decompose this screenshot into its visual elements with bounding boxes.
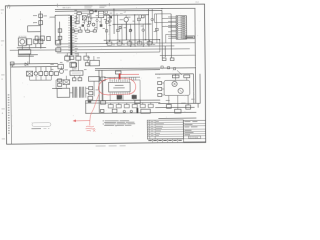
wire vertical x197.8 stub [197,103,199,107]
wire bus top feed [55,14,70,16]
wire vertical x165.5 [164,46,166,57]
transistor Q4 [59,69,63,73]
wire vertical x195.5 [194,8,197,103]
wire cap drops [30,75,52,80]
right mid components T marks [162,58,166,61]
wire br rail y104 [158,102,200,104]
relay K3 [141,109,151,113]
title block outline [183,120,205,142]
extra small parts D2-area [87,11,109,26]
resistor R12 [70,62,76,67]
U1 pin feed wires [110,74,134,101]
resistor R4 [76,21,79,24]
relay K1 box [18,49,30,54]
capacitor C11 [100,24,103,27]
transformer T2 winding B [79,87,83,98]
crystal Y1 [141,15,144,18]
wire rail y52.5 [57,51,160,54]
wire T2 to boxes [86,87,89,89]
wire center rail y70 [95,69,160,72]
wire right rail y74.6 [155,73,193,75]
small labels br [157,77,195,103]
label box K2 [184,75,190,78]
bottom margin text [96,145,106,148]
IC U1 body [109,82,131,92]
resistor R18 [166,104,171,108]
capacitor C19 polarized [136,108,138,113]
connector P1 below bus [69,56,74,59]
svg-text:24-1: 24-1 [195,2,199,4]
resistor R15 [158,82,162,85]
wire vertical x200 [199,74,201,104]
revision table rows [147,122,183,136]
wire vertical x41 [39,11,41,42]
terminal strip TB1 bus bar [70,15,72,55]
resistor R24 [65,56,71,60]
wire long rail y49.5 [10,49,190,51]
capacitor C6 [39,72,43,76]
red line to right [120,73,138,75]
section I wires [66,75,103,101]
wire long rail y43.5 [57,43,195,44]
wire vertical x102 [101,70,103,100]
wire top rail [55,8,195,9]
IC U1 top pins [110,80,130,83]
capacitor C22 [101,101,106,104]
wire vertical x99 [98,70,100,113]
transformer T1 primary [18,38,26,46]
wires right of U1 [131,77,140,100]
label box above U1 [115,71,121,74]
resistor R21 [78,78,82,81]
test point TP1 [123,110,125,112]
title block row lines [183,123,205,138]
resistor R20 [186,105,191,109]
wire vertical x149 [148,9,150,47]
resistor R9 [119,26,121,28]
wire right mid rail y56 [160,54,196,56]
wire center rail y68.5 [95,67,196,70]
resistor R1 [10,62,14,65]
IC U4 [135,100,140,103]
paper background [0,0,210,150]
red arrow mark at U1 pin [119,73,121,79]
transistor Q6 [178,88,183,93]
transistor Q3 leads [125,15,127,17]
diode pair D7 [58,79,62,82]
resistor R5 [72,30,75,32]
capacitor C7 [44,71,48,75]
IC U1 bottom pins [110,92,130,95]
transistor Q5 [172,81,177,86]
resistor R14 [112,109,117,113]
wire br rail y108 [155,106,194,108]
wire y54 left [18,54,38,56]
section K wires [162,74,189,110]
wire vertical x55.6 [54,15,56,44]
diode D2 [95,10,97,12]
notes text block [103,120,136,126]
diode D5 dark [117,95,122,99]
resistor row RN1 [108,103,153,108]
resistor R11 [56,48,61,52]
extra mesh wires D-area [74,14,107,30]
top margin mark 1 [84,6,92,8]
wire bottom rail y103 [85,102,160,105]
wire into x55.6 [49,16,55,18]
label near fuse [33,15,47,23]
switch S1 [39,21,43,25]
section D interconnect wires [73,11,109,32]
capacitor C4 stack [34,39,38,44]
connector J1 feed wires [154,14,176,43]
capacitor C9 [90,10,93,13]
label row small marks [116,13,123,15]
IC U1 internal label [113,85,124,88]
labels section H [60,55,100,70]
connector J1 cell text [182,16,185,38]
wire bottom rail y100.5 [85,99,160,102]
gate U2B [84,56,89,60]
red note scribble [85,126,95,132]
wire vertical x162.5 [161,10,163,58]
top margin mark 2 [99,6,106,8]
wire drops section B [12,44,51,72]
wire y31 left [28,31,41,33]
resistor R10 [56,40,61,45]
capacitor C20 [73,78,76,81]
wire vertical x85.4 [85,101,87,114]
wire vertical x171.6 [170,14,172,58]
resistor R22 [58,29,62,33]
capacitor C12 [129,30,131,32]
wire y88 left stub [52,88,62,90]
labels near T2 [50,64,98,91]
wire bottom-left extras [56,75,80,88]
wire mid rail A y40 [104,39,160,41]
rectifier BR2 [82,16,86,20]
label box bottom-left [89,77,100,82]
diode D1 pair [25,61,28,65]
svg-text:5M 05-E1: 5M 05-E1 [62,7,70,9]
diode D3 [109,16,112,18]
gate U2A [76,56,81,60]
IC U3 [90,60,100,66]
resistor R6 [78,30,82,32]
fuse F1 [39,14,43,18]
transformer T2 core box [57,88,70,97]
ferrite bead note stadium [32,123,51,127]
wire A to B [40,43,42,49]
indicator lamp DS1 [34,72,37,75]
wire IC feed rail y77.5 [104,76,140,78]
section H wires [61,53,94,71]
revision table cell text [148,121,164,136]
transistor Q3 [124,17,128,21]
resistor R2 [71,63,76,67]
small comp x100 [101,109,104,112]
wire y55.5 left [18,55,34,57]
wire y24.4 mid [113,23,152,25]
relay K2 [70,71,83,76]
bottom strip text [148,140,181,141]
transistor Q2 [92,23,95,26]
wire y25 left [28,25,41,27]
wire collector below bridge [30,79,52,81]
title block small text [184,121,197,135]
wire drops section H [67,53,87,63]
label box K1 [172,75,179,78]
resistor R23 [58,36,62,40]
connector J1 pin circles [177,16,178,38]
transformer T1 secondary [27,39,32,45]
resistor R19 [175,109,181,113]
diode D4 [88,96,93,100]
wire left rail y66 [11,66,58,68]
capacitor C5 stack [39,39,43,44]
title block bottom strip [153,139,178,143]
connector J1 center divider [180,16,182,39]
red branch with arrow [75,119,90,121]
wire vertical x193.5 [192,74,194,104]
resistor R3 [77,12,81,15]
svg-text:CD-11 6000: CD-11 6000 [189,137,198,139]
wire br lower rail y118.8 [158,117,196,119]
tiny text smudges D-area [74,9,112,29]
capacitor C21 [54,72,58,76]
revision table columns [149,120,151,139]
wire long bottom rail y113 [85,111,196,114]
resistor R8 [93,30,96,32]
connector J1 body [176,16,187,39]
red highlight loop around U1 [98,78,136,95]
junction dots on rails [106,8,163,47]
capacitor bank C13-C17 [107,40,152,45]
wire long rail y46.5 [57,46,175,47]
resistor R25 [85,63,89,66]
resistor R7 [86,30,90,32]
wire ground return x10.8 [10,64,13,144]
resistor R17 [158,94,162,97]
transistor Q1 [88,21,91,24]
revision table outline [147,120,183,139]
feedback loop wire [164,80,190,95]
regulator VR1 [98,11,103,17]
wire ladder verticals [106,9,160,53]
capacitor value labels [113,44,156,45]
rectifier small boxes right of T2 [89,87,93,90]
red tail downward [90,94,100,126]
left margin vertical text [8,94,10,133]
capacitor C3 [47,36,51,40]
reference label box top-right [186,36,195,39]
resistor R13 [58,64,64,68]
wire vertical x135 [134,15,136,47]
capacitor C10 [82,24,85,26]
wire vertical x127 [125,22,127,40]
wire upper mid rail [103,14,148,16]
capacitor C8 [49,71,53,75]
diode bridge BR1 [26,71,32,76]
diode D6 dark [132,95,137,99]
top-left handwritten mark [7,5,10,9]
resistor R16 [158,88,162,91]
connector J1 row lines [176,18,186,37]
diode D8 small [88,100,91,102]
capacitor C1 [35,36,38,40]
component row mid circles [105,18,158,32]
drawing number box [188,136,200,138]
wire vertical x114.5 [113,9,115,34]
stadium caption dash [31,127,41,130]
rectifier BR3 [63,80,70,85]
wire left rail y63 [11,63,58,65]
capacitor C18 [101,77,106,81]
capacitor C2 [40,36,44,41]
tiny labels mid area [107,17,156,33]
wire vertical x28 [27,26,29,32]
test point TP2 [130,110,132,112]
right mid small parts [161,66,182,75]
transformer T2 winding A [73,87,77,98]
terminal strip TB1 labels [74,16,78,54]
terminal strip TB1 pin stubs [68,15,74,55]
wire vertical x60 [59,22,61,44]
wire second top rail [55,9,162,12]
bottom strip row line [147,138,183,140]
wire y47 left [17,46,46,48]
right mid component 2 [170,58,174,61]
